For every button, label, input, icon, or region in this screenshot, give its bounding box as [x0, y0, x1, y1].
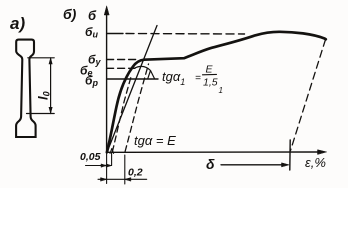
tg alpha1 secant line [107, 26, 157, 153]
svg-text:δ: δ [206, 156, 215, 172]
sigma_p level line [107, 78, 158, 80]
svg-text:ε,%: ε,% [305, 155, 326, 170]
witness of axis down [106, 153, 108, 184]
svg-text:1: 1 [219, 86, 223, 95]
0,2 dimension line [98, 178, 147, 180]
specimen outline [16, 40, 35, 137]
epsilon axis (horizontal) [107, 151, 321, 153]
fracture unload dashed line [291, 40, 326, 151]
0,2 witness line [124, 155, 126, 184]
angle alpha1 arc [134, 66, 155, 78]
sigma_y level line [107, 59, 139, 61]
svg-text:0,2: 0,2 [128, 167, 143, 179]
svg-text:tgα = Е: tgα = Е [134, 133, 176, 148]
svg-text:1,5: 1,5 [203, 77, 218, 89]
gauge mark bottom [27, 113, 55, 115]
0.05 offset dashed line [112, 75, 131, 152]
stress-strain curve [107, 32, 326, 153]
svg-text:Е: Е [206, 64, 214, 76]
gauge mark top [28, 57, 54, 59]
0.2 offset dashed line [125, 64, 148, 152]
dimension line l0 [50, 58, 52, 113]
svg-text:б): б) [63, 6, 77, 22]
0,05 dim line [86, 165, 112, 167]
svg-text:0,05: 0,05 [80, 151, 101, 163]
svg-text:=: = [195, 73, 201, 84]
sigma_u level line [107, 33, 123, 35]
fracture strain tick [289, 140, 291, 170]
svg-text:а): а) [10, 14, 25, 33]
0,05 up arrow at axis [110, 149, 114, 154]
svg-text:б: б [88, 8, 97, 23]
sigma axis (vertical) [106, 10, 108, 153]
sigma_e level line [107, 67, 135, 69]
